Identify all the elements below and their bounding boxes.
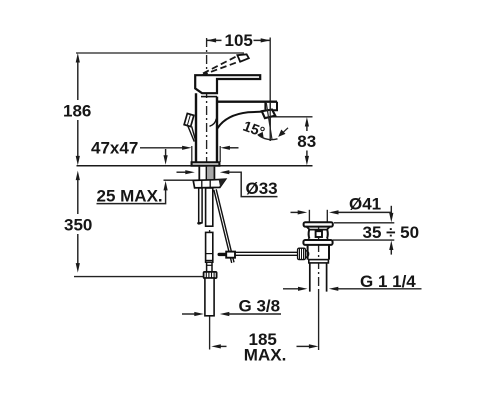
counter top line (77, 165, 313, 167)
centerline faucet axis (206, 38, 208, 163)
spout tip block (272, 102, 278, 113)
faucet head and lever (195, 75, 260, 93)
left rod foot (198, 222, 202, 224)
narrow neck (207, 262, 212, 272)
svg-text:186: 186 (63, 102, 91, 121)
dimension 15 degrees (241, 119, 288, 142)
drain taper (306, 226, 330, 229)
dimension G 1 1/4 (283, 272, 422, 291)
drain neck (309, 230, 328, 239)
drain shoulder flare (308, 239, 329, 241)
linkage rod left stub (219, 253, 226, 256)
svg-text:Ø41: Ø41 (349, 194, 381, 213)
extension line spout tip vertical (269, 38, 271, 142)
spout arm top edge (217, 100, 277, 102)
dimension 83 (271, 117, 317, 166)
dimension 350 (64, 171, 204, 277)
pop-up drain flange (304, 222, 333, 226)
drain lock ring (303, 240, 332, 245)
wire: tilted spout axis line (266, 103, 272, 140)
drain bottom band (309, 260, 329, 263)
extension line drain axis bottom (318, 291, 320, 350)
wire: vertical angle reference through spout tip (269, 102, 271, 141)
diagonal pop-up rod (214, 190, 232, 263)
centerline lower supply axis (209, 167, 211, 316)
svg-text:25 MAX.: 25 MAX. (97, 186, 163, 205)
pull rod (188, 126, 195, 142)
dimension O41 (291, 194, 392, 214)
dimension 186 (63, 53, 91, 165)
dimension G 3/8 (182, 297, 281, 317)
threaded shank below deck (199, 167, 214, 180)
centerline drain axis (318, 226, 320, 291)
pull rod knob (184, 113, 194, 126)
faucet body column (195, 93, 197, 162)
horizontal linkage rod (226, 251, 298, 253)
inner fillet curve (210, 119, 217, 127)
dimension 25 MAX (97, 149, 168, 205)
supply tube lower segment (206, 232, 213, 262)
arc (258, 135, 278, 140)
supply tube upper segment (206, 188, 213, 226)
svg-text:83: 83 (297, 132, 316, 151)
counter bottom line (25 max) (164, 179, 215, 181)
dimension 105 (207, 31, 271, 141)
drain tailpipe (310, 263, 327, 292)
drain square hole (316, 231, 322, 237)
dimension 35-50 (333, 206, 420, 255)
tailpiece tube G3/8 (205, 278, 214, 316)
raised lever tip cap (237, 54, 248, 61)
raised lever dashed lines (203, 56, 238, 74)
dimension O33 leader (177, 170, 278, 198)
svg-text:47x47: 47x47 (91, 138, 138, 157)
svg-text:350: 350 (64, 216, 92, 235)
knurled knob (298, 248, 309, 259)
head collar line (201, 96, 217, 98)
base flange (192, 162, 220, 165)
connection nut (204, 272, 217, 278)
extension line faucet axis bottom (209, 316, 211, 350)
drain extension lines (308, 210, 310, 223)
linkage connector block (226, 252, 235, 258)
svg-text:G 3/8: G 3/8 (239, 297, 281, 316)
wire: top extension line at raised-handle height (76, 52, 244, 54)
wire: 350 bottom reference line (74, 276, 204, 278)
svg-text:105: 105 (225, 31, 253, 50)
svg-text:G 1 1/4: G 1 1/4 (360, 272, 416, 291)
spout underside fillet curve (217, 112, 262, 129)
left rod below bracket (199, 188, 202, 223)
spout nozzle (262, 110, 276, 119)
svg-text:Ø33: Ø33 (246, 179, 278, 198)
mounting bracket (193, 179, 225, 188)
dimension 185 MAX (211, 330, 318, 364)
dimension 47x47 (91, 138, 239, 162)
svg-text:35 ÷ 50: 35 ÷ 50 (363, 223, 420, 242)
svg-text:MAX.: MAX. (244, 346, 286, 365)
drain lower body (308, 245, 329, 260)
